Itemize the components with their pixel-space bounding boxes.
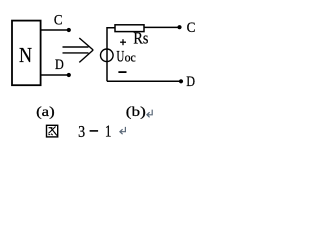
label C (b) <box>187 20 196 36</box>
caption (b) <box>126 105 146 120</box>
svg-text:3: 3 <box>78 122 85 141</box>
wire source branch (left side of b) <box>107 28 115 82</box>
svg-text:N: N <box>19 43 32 67</box>
wire N to node D <box>41 74 68 76</box>
dash in 3-1 <box>90 130 99 132</box>
minus sign of source <box>118 71 126 73</box>
wire N to node C <box>41 29 68 31</box>
svg-text:C: C <box>54 12 63 28</box>
wire source to node D <box>107 80 180 82</box>
hanzi 图 (figure) drawn as strokes <box>47 125 58 137</box>
label Rs <box>133 29 148 48</box>
voltage source Uoc <box>101 49 114 62</box>
svg-text:D: D <box>55 57 64 73</box>
svg-text:U: U <box>116 49 124 66</box>
label Uoc <box>116 49 136 66</box>
wire Rs to node C <box>144 26 179 28</box>
node C terminal dot (b) <box>177 25 181 29</box>
label D (a) <box>55 57 64 73</box>
numeral 1 <box>105 121 112 140</box>
caption text 3 - 1 <box>78 122 85 141</box>
svg-text:1: 1 <box>105 121 112 140</box>
label C (a) <box>54 12 63 28</box>
svg-text:D: D <box>186 74 195 90</box>
resistor Rs <box>115 25 144 32</box>
node D terminal dot (b) <box>179 79 183 83</box>
svg-text:C: C <box>187 20 196 36</box>
svg-text:(a): (a) <box>36 105 55 120</box>
caption (a) <box>36 105 55 120</box>
label N <box>19 43 32 67</box>
equivalence double arrow <box>63 38 94 62</box>
svg-text:oc: oc <box>125 50 136 65</box>
svg-text:Rs: Rs <box>133 29 148 48</box>
node D terminal dot (a) <box>67 73 71 77</box>
label D (b) <box>186 74 195 90</box>
network box N <box>12 21 41 86</box>
node C terminal dot (a) <box>67 28 71 32</box>
plus sign of source <box>120 39 126 45</box>
paragraph return mark after 1 <box>120 127 126 134</box>
svg-text:(b): (b) <box>126 105 146 120</box>
paragraph return mark after (b) <box>147 110 152 118</box>
